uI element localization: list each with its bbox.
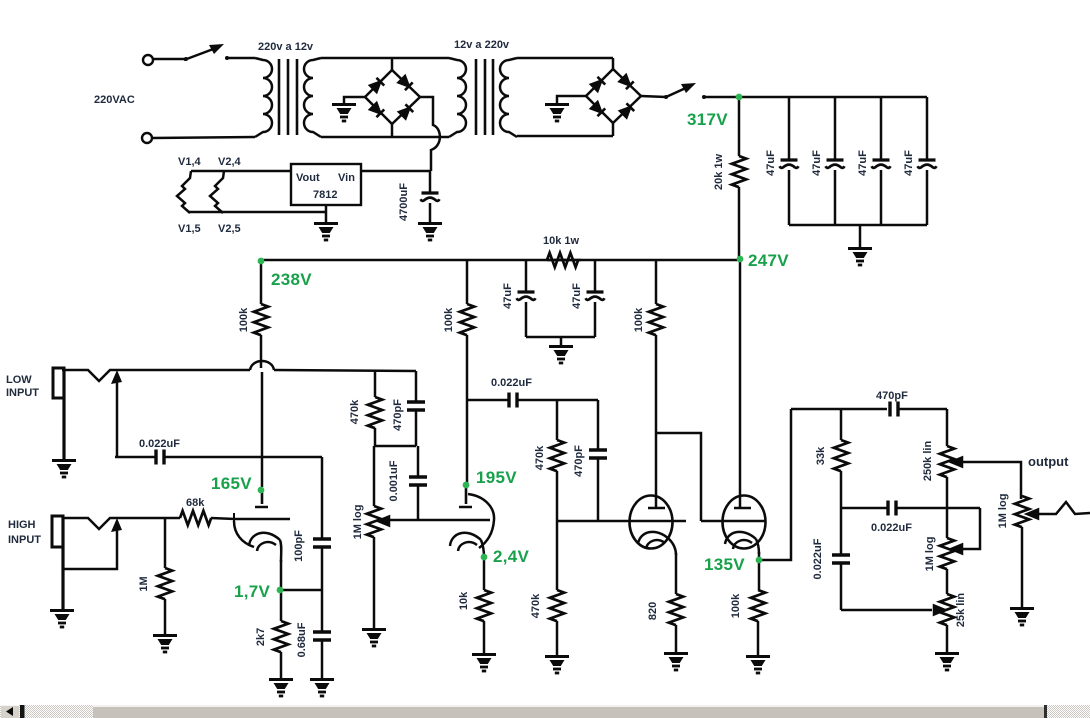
svg-text:2k7: 2k7	[255, 628, 267, 646]
capacitor 0.68uF cathode bypass	[313, 632, 331, 678]
capacitor 47uF filter 3	[872, 97, 891, 225]
wire hop over V1a plate strand	[250, 361, 274, 370]
capacitor 47uF decoupling right	[586, 260, 605, 337]
wire output with break symbol	[1038, 502, 1090, 514]
svg-text:100k: 100k	[238, 307, 250, 332]
wire 250k wiper to output pot	[962, 462, 1021, 499]
wire B1 minus to ground	[344, 97, 365, 103]
triode V2a cathode	[638, 532, 676, 555]
triode V1a grid line	[235, 518, 290, 521]
node 317V	[687, 94, 742, 129]
wire bridge B1 AC bottom lead	[391, 124, 394, 137]
wire wiper to V1b grid	[389, 519, 448, 522]
svg-text:47uF: 47uF	[857, 150, 869, 176]
svg-text:0.022uF: 0.022uF	[491, 377, 532, 389]
ground at 10k	[472, 655, 496, 672]
svg-text:20k 1w: 20k 1w	[713, 154, 725, 191]
jack switch arrow LOW	[111, 370, 122, 457]
node 165V	[211, 474, 264, 493]
node 1,7V	[234, 582, 283, 601]
wire HIGH INPUT tip with switch notch	[62, 518, 180, 529]
scrollbar button shadow bar	[20, 705, 25, 718]
scrollbar thumb	[93, 705, 1047, 718]
wire V1a plate strand crossing to 165V	[261, 372, 264, 487]
bridge rectifier B1 diamond	[365, 70, 420, 124]
wire bridge B2 AC bottom lead	[612, 123, 615, 136]
transformer T2 secondary winding	[500, 58, 517, 137]
wire bridge B2 AC top lead	[612, 58, 615, 69]
wire bridge B1 AC top lead	[391, 58, 394, 70]
wire B2 minus to ground	[557, 96, 586, 103]
wire 247V to V2b plate	[739, 260, 742, 508]
svg-text:25k lin: 25k lin	[955, 593, 967, 628]
diode B2 upper-left	[590, 77, 605, 92]
resistor 33k	[834, 409, 848, 508]
svg-text:0.022uF: 0.022uF	[139, 438, 180, 450]
resistor 820 cathode	[669, 594, 683, 652]
ground at 4700uF	[418, 224, 442, 241]
svg-text:195V: 195V	[476, 468, 517, 487]
svg-text:1M log: 1M log	[997, 494, 1009, 529]
wire V2b cathode to 135V node	[758, 552, 761, 590]
svg-text:Vout: Vout	[296, 172, 320, 184]
capacitor 47uF decoupling left	[517, 260, 536, 337]
resistor 1M grid leak	[158, 518, 172, 634]
node: 220VAC bottom terminal	[142, 133, 152, 143]
svg-text:10k 1w: 10k 1w	[543, 235, 580, 247]
svg-text:V2,4: V2,4	[218, 156, 242, 168]
ground at 470k lower	[545, 657, 569, 674]
triode V2a envelope circle	[630, 496, 673, 549]
capacitor 47uF filter 1	[780, 97, 799, 225]
triode V1b plate	[459, 487, 472, 507]
potentiometer 1M log volume	[367, 446, 381, 628]
svg-text:317V: 317V	[687, 110, 728, 129]
switch S2 blade	[664, 83, 696, 99]
svg-text:238V: 238V	[271, 270, 312, 289]
ground at decoupling caps	[549, 347, 573, 364]
triode V1b grid line	[448, 519, 490, 522]
switch S1 blade	[184, 44, 224, 61]
ground at bridge B2	[545, 105, 569, 122]
svg-text:47uF: 47uF	[765, 150, 777, 176]
diode B2 lower-right	[619, 103, 634, 118]
capacitor 47uF filter 4	[918, 97, 937, 225]
svg-text:470pF: 470pF	[573, 445, 585, 477]
wire V2a cathode lead	[675, 553, 678, 594]
svg-text:470k: 470k	[349, 399, 361, 424]
svg-text:HIGH: HIGH	[8, 519, 36, 531]
node: 220VAC top terminal	[143, 55, 153, 65]
svg-text:47uF: 47uF	[571, 283, 583, 309]
capacitor 100pF bright	[313, 457, 331, 631]
wire T2 secondary bottom to bridge B2	[517, 135, 613, 138]
svg-text:1M: 1M	[138, 576, 150, 591]
wire filter bus to ground	[859, 225, 862, 247]
triode V1a cathode	[249, 533, 281, 562]
wire 7812 Vout to heater rail	[191, 170, 291, 173]
svg-text:INPUT: INPUT	[6, 387, 39, 399]
diode B2 lower-left	[590, 101, 605, 116]
ground at LOW INPUT	[52, 461, 76, 478]
capacitor 470pF grid	[589, 400, 607, 521]
regulator U1 7812 box	[291, 164, 361, 205]
wire T1 secondary top to T2 primary (12V rail top)	[321, 57, 449, 60]
svg-text:4700uF: 4700uF	[398, 183, 410, 221]
ground at 25k lin	[935, 654, 959, 671]
wiper arrow 1M log tone	[951, 545, 962, 554]
node 238V	[258, 258, 313, 289]
diode B1 upper-left	[369, 78, 384, 93]
wire 135V to tone stack riser	[759, 409, 791, 560]
svg-text:V1,4: V1,4	[178, 156, 202, 168]
svg-text:47uF: 47uF	[502, 283, 514, 309]
wire filter caps bottom bus	[789, 224, 927, 227]
ground at HIGH INPUT	[50, 611, 74, 628]
resistor 100k plate V1b	[460, 260, 474, 400]
svg-text:47uF: 47uF	[811, 150, 823, 176]
capacitor 4700uF	[421, 171, 440, 222]
capacitor 470pF treble	[890, 402, 947, 417]
svg-text:7812: 7812	[313, 189, 337, 201]
wire heater return rail	[189, 211, 326, 214]
potentiometer 25k lin	[940, 594, 954, 652]
scrollbar track	[0, 705, 1090, 718]
node 135V	[704, 555, 762, 574]
jack LOW INPUT body	[53, 368, 64, 459]
capacitor 0.022uF LOW input coupling	[115, 450, 322, 465]
svg-text:247V: 247V	[748, 251, 789, 270]
svg-text:100k: 100k	[730, 593, 742, 618]
resistor 100k cathode follower	[751, 590, 765, 655]
resistor 10k 1w in B+ bus	[547, 253, 581, 267]
wire LOW input to 470k/470pF	[274, 370, 416, 371]
svg-text:470k: 470k	[530, 593, 542, 618]
wire V1b cathode to 2.4V node	[483, 555, 486, 590]
wiper arrow 1M log	[378, 517, 389, 526]
svg-text:output: output	[1028, 454, 1069, 469]
triode V1b envelope	[468, 494, 494, 548]
diode B1 upper-right	[398, 75, 413, 90]
svg-text:0.022uF: 0.022uF	[871, 522, 912, 534]
transformer T1 secondary winding	[304, 58, 321, 137]
wire grid junction to V2a	[557, 520, 686, 523]
resistor 20k 1w	[732, 97, 746, 260]
diode B1 lower-right	[398, 104, 413, 119]
wiper arrow 25k lin	[934, 606, 945, 615]
svg-text:47uF: 47uF	[903, 150, 915, 176]
svg-text:LOW: LOW	[6, 374, 32, 386]
ground at 2k7	[269, 680, 293, 697]
placeholder sections	[50, 260, 598, 696]
wire B+ bus 238V to 247V	[261, 259, 739, 262]
wire T2 secondary top to bridge B2	[517, 57, 613, 60]
svg-text:0.022uF: 0.022uF	[812, 538, 824, 579]
svg-text:68k: 68k	[186, 497, 205, 509]
ground at 820	[664, 654, 688, 671]
svg-text:2,4V: 2,4V	[493, 547, 530, 566]
svg-text:1,7V: 1,7V	[234, 582, 271, 601]
wire tone stack top	[791, 408, 887, 411]
svg-text:10k: 10k	[458, 591, 470, 610]
wire decoupling caps bottom	[526, 337, 595, 345]
wire B1 plus output with hop over 12V rail	[420, 97, 440, 171]
node 2,4V	[481, 547, 530, 566]
resistor 2k7 cathode	[274, 590, 288, 678]
svg-text:470k: 470k	[534, 445, 546, 470]
ground at 1M	[153, 636, 177, 653]
svg-text:165V: 165V	[211, 474, 252, 493]
transformer T1 core	[279, 59, 297, 135]
wiper arrow 250k lin	[951, 458, 962, 467]
capacitor 470pF	[407, 371, 425, 446]
potentiometer 1M log bass	[940, 508, 954, 594]
resistor 100k plate V2a	[649, 260, 663, 508]
diode B1 lower-left	[369, 102, 384, 117]
triode V2b grid line	[701, 520, 766, 523]
triode V2a plate	[648, 507, 665, 510]
transformer T2 core	[476, 59, 493, 135]
svg-text:12v a 220v: 12v a 220v	[454, 39, 510, 51]
ground at filter caps	[848, 249, 872, 266]
capacitor 47uF filter 2	[826, 97, 845, 225]
svg-text:220v a 12v: 220v a 12v	[258, 41, 314, 53]
svg-text:V1,5: V1,5	[178, 223, 201, 235]
potentiometer 1M log output level	[1015, 496, 1029, 607]
svg-text:250k lin: 250k lin	[922, 441, 934, 482]
svg-text:100k: 100k	[633, 307, 645, 332]
potentiometer 250k lin treble	[940, 409, 954, 508]
svg-text:470pF: 470pF	[392, 399, 404, 431]
heater connector V2,4	[210, 171, 224, 213]
jack HIGH INPUT body	[52, 516, 63, 609]
wire S1 contact to T1 primary	[225, 56, 255, 60]
triode V2b plate	[734, 507, 751, 510]
svg-text:33k: 33k	[815, 446, 827, 465]
svg-text:0.68uF: 0.68uF	[296, 622, 308, 657]
svg-text:470pF: 470pF	[876, 390, 908, 402]
wire T1 secondary bottom to T2 primary (12V rail bottom)	[321, 136, 449, 139]
wire V1a cathode to 1.7V node	[280, 560, 283, 590]
resistor 470k grid leak lower	[550, 521, 564, 655]
heater connector V1,4	[177, 171, 191, 213]
ground at 7812	[314, 224, 338, 241]
ground at bridge B1	[332, 105, 356, 122]
svg-text:135V: 135V	[704, 555, 745, 574]
node 247V	[737, 251, 790, 270]
wire B2 plus to switch S2	[641, 96, 666, 97]
ground at 100k follower	[746, 657, 770, 674]
ground at output pot	[1010, 609, 1034, 626]
resistor 68k grid stopper	[180, 511, 235, 525]
ground at 1M log	[362, 630, 386, 647]
wire 1.7V node to bypass strand	[280, 589, 322, 592]
wire S2 contact to node 317V	[702, 95, 739, 99]
resistor 470k	[368, 371, 382, 446]
svg-text:1M log: 1M log	[352, 505, 364, 540]
diode B2 upper-right	[619, 74, 634, 89]
svg-text:Vin: Vin	[338, 172, 355, 184]
triode V1a plate	[255, 489, 268, 507]
resistor 470k grid upper	[550, 400, 564, 521]
wire V1b plate strand to 195V	[466, 400, 469, 486]
wire 7812 Vin to reservoir cap	[361, 170, 431, 173]
svg-text:INPUT: INPUT	[8, 534, 41, 546]
capacitor 0.022uF tone left	[832, 508, 850, 610]
bridge rectifier B2 diamond	[586, 69, 641, 123]
capacitor 0.022uF interstage	[467, 393, 598, 408]
triode V1a envelope	[234, 513, 254, 547]
wire V2a plate to V2b grid	[656, 433, 701, 521]
jack switch arrow HIGH with return loop	[62, 518, 122, 569]
transformer T2 primary winding	[449, 58, 466, 137]
node 195V	[463, 468, 518, 488]
transformer T1 primary winding	[255, 58, 272, 137]
triode V1b cathode	[450, 533, 484, 557]
wire HT bus 317V to filter caps	[739, 96, 927, 99]
wire 470k/470pF junction bus	[375, 445, 416, 448]
ground at 0.68uF	[310, 680, 334, 697]
triode V2b envelope circle	[723, 496, 766, 549]
svg-text:100pF: 100pF	[293, 530, 305, 562]
triode V2b cathode	[725, 532, 759, 554]
svg-text:220VAC: 220VAC	[94, 94, 135, 106]
wire top terminal to switch S1	[153, 58, 185, 61]
wire 7812 GND pin	[325, 205, 328, 222]
wire bottom terminal to T1 primary	[152, 137, 255, 138]
svg-text:0.001uF: 0.001uF	[388, 460, 400, 501]
resistor 10k cathode	[477, 590, 491, 653]
wire tone left strand to 25k wiper	[841, 609, 932, 612]
svg-text:100k: 100k	[443, 307, 455, 332]
capacitor 0.022uF tone mid	[841, 501, 980, 516]
wire LOW INPUT tip with switch notch	[62, 370, 250, 381]
resistor 100k plate V1a	[254, 260, 268, 368]
svg-text:V2,5: V2,5	[218, 223, 241, 235]
svg-text:820: 820	[647, 602, 659, 620]
capacitor 0.001uF	[409, 446, 427, 520]
svg-text:1M log: 1M log	[924, 537, 936, 572]
scrollbar left arrow button	[1, 705, 19, 718]
wire tone mid to 1M wiper	[962, 508, 980, 549]
wiper arrow 1M log output	[1027, 510, 1038, 519]
